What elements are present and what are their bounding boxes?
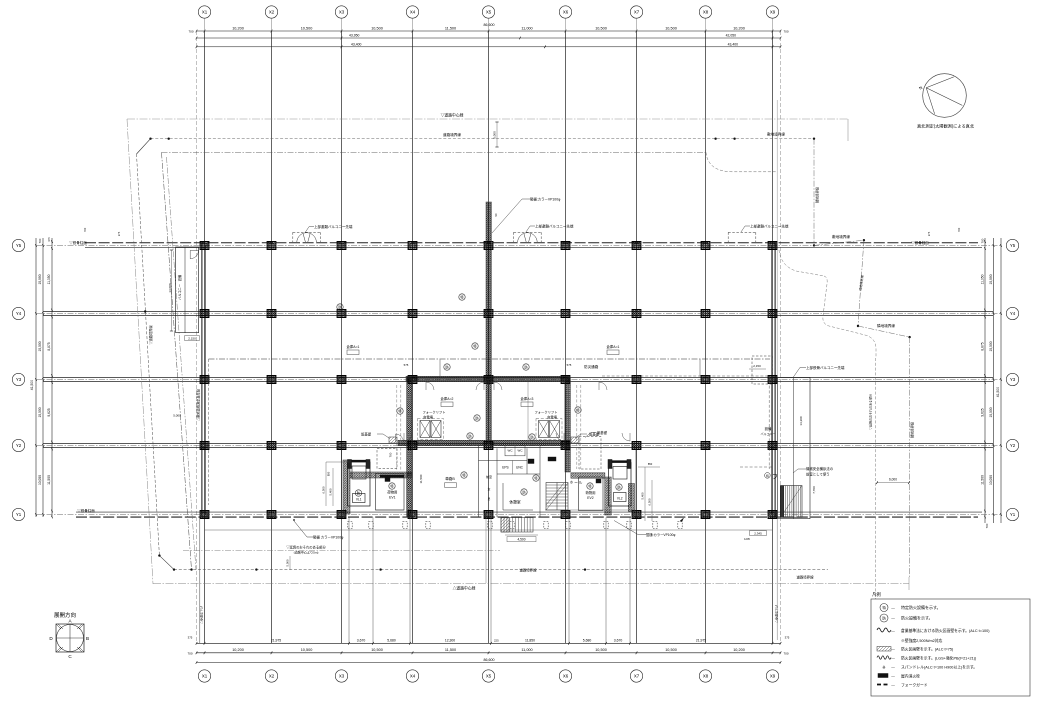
svg-text:10,500: 10,500: [371, 648, 383, 652]
svg-text:X7: X7: [634, 10, 640, 15]
svg-text:12,300: 12,300: [445, 639, 455, 643]
svg-text:隣地境界線: 隣地境界線: [910, 421, 915, 438]
svg-text:43,400: 43,400: [351, 42, 361, 46]
svg-text:▽鉄骨柱面: ▽鉄骨柱面: [77, 508, 95, 513]
svg-text:5,680: 5,680: [583, 639, 592, 643]
svg-text:21,975: 21,975: [271, 639, 281, 643]
svg-text:WC: WC: [518, 449, 524, 453]
road boundary line north: [137, 132, 816, 154]
svg-text:X3: X3: [339, 674, 345, 679]
svg-text:5,000: 5,000: [493, 131, 497, 139]
svg-text:850: 850: [327, 471, 331, 476]
svg-text:竪樋:カラーVP100φ: 竪樋:カラーVP100φ: [530, 197, 561, 202]
downspout label east: [614, 521, 675, 538]
hall room labels: [486, 449, 583, 505]
svg-text:フォークリフト: フォークリフト: [422, 410, 445, 415]
fire wall hatch X4: [407, 378, 412, 517]
svg-text:7,700: 7,700: [812, 486, 816, 494]
svg-text:道路境界線: 道路境界線: [797, 575, 815, 580]
svg-text:▽道路境界線: ▽道路境界線: [148, 325, 153, 345]
svg-text:X1: X1: [202, 10, 208, 15]
svg-text:700: 700: [389, 452, 393, 457]
svg-text:4,500: 4,500: [518, 538, 526, 542]
dashed equipment rect east: [579, 437, 601, 470]
bottom dimension lines: [187, 636, 789, 664]
equipment base west: [361, 432, 397, 444]
svg-text:▽鉄骨柱面: ▽鉄骨柱面: [911, 240, 929, 245]
road boundary south: [173, 568, 828, 580]
east EV block walls: [571, 473, 635, 515]
svg-text:前室として使う: 前室として使う: [806, 472, 830, 477]
svg-text:X9: X9: [770, 10, 776, 15]
west EV block walls: [343, 460, 412, 514]
svg-text:375: 375: [785, 636, 790, 640]
svg-text:Y5: Y5: [16, 243, 22, 248]
grid line Y4: [36, 312, 1001, 316]
svg-text:X5: X5: [486, 10, 492, 15]
svg-text:10,050: 10,050: [38, 475, 42, 485]
svg-text:575: 575: [404, 363, 409, 367]
east equipment dashed rect: [740, 356, 772, 467]
svg-text:10,050: 10,050: [989, 475, 993, 485]
svg-text:敷地境界線: 敷地境界線: [832, 234, 850, 239]
svg-text:EPS: EPS: [502, 466, 508, 470]
svg-text:EV1: EV1: [389, 496, 396, 500]
svg-text:10,500: 10,500: [665, 648, 677, 652]
svg-text:設基礎: 設基礎: [361, 432, 372, 437]
svg-text:設備: 設備: [765, 426, 772, 431]
forklift charging east: [534, 410, 562, 440]
svg-text:10,000: 10,000: [989, 407, 993, 417]
svg-text:—: —: [891, 666, 895, 670]
svg-text:防火区画壁を示す。(ALC t=75): 防火区画壁を示す。(ALC t=75): [901, 647, 954, 652]
svg-text:特: 特: [882, 605, 886, 610]
svg-text:10,200: 10,200: [733, 26, 745, 30]
svg-text:275: 275: [117, 231, 121, 236]
svg-text:▽延焼のおそれのある部分: ▽延焼のおそれのある部分: [868, 394, 873, 430]
svg-text:41,500: 41,500: [996, 387, 1000, 397]
svg-text:5,000: 5,000: [173, 414, 181, 418]
dashed opening west: [377, 449, 397, 469]
fire wall hatch X6: [565, 378, 570, 472]
exterior wall X9: [772, 243, 775, 517]
west road center diagonal D1: [127, 119, 153, 584]
svg-text:700: 700: [783, 30, 788, 34]
svg-text:11,350: 11,350: [981, 274, 985, 284]
svg-text:6,500: 6,500: [322, 486, 326, 493]
svg-text:X2: X2: [269, 10, 275, 15]
svg-text:375: 375: [188, 636, 193, 640]
svg-text:充電場: 充電場: [423, 415, 434, 420]
svg-text:10,500: 10,500: [595, 26, 607, 30]
svg-text:13,000: 13,000: [168, 283, 172, 293]
svg-text:敷地境界線: 敷地境界線: [767, 131, 785, 136]
svg-text:機械安全横臥法の: 機械安全横臥法の: [806, 466, 834, 471]
hall stairs: [546, 483, 568, 511]
east balcony stair: [780, 486, 816, 518]
svg-text:—: —: [891, 617, 895, 621]
svg-text:△歩道切下げ: △歩道切下げ: [774, 605, 779, 623]
exterior wall Y5: [36, 243, 1001, 248]
svg-text:43,950: 43,950: [349, 34, 359, 38]
svg-text:(道路中心より5m): (道路中心より5m): [294, 550, 319, 555]
svg-text:VL1: VL1: [356, 498, 362, 502]
svg-text:X6: X6: [563, 10, 569, 15]
svg-text:10,200: 10,200: [232, 26, 244, 30]
svg-text:700: 700: [957, 227, 961, 232]
svg-text:道路境界線: 道路境界線: [443, 132, 461, 137]
5000 dim north: [493, 122, 499, 147]
svg-text:△敷地面積測定基準線: △敷地面積測定基準線: [196, 388, 201, 421]
svg-text:11,500: 11,500: [445, 648, 456, 652]
svg-text:防: 防: [882, 616, 886, 621]
east fire-spread line (5m offset): [779, 250, 876, 655]
storage A2 A3 labels: [441, 396, 534, 407]
offset line right: [777, 31, 780, 643]
svg-text:13,200: 13,200: [799, 416, 803, 426]
svg-text:850: 850: [648, 462, 653, 466]
svg-text:—: —: [891, 648, 895, 652]
svg-text:荷物用: 荷物用: [585, 490, 595, 495]
steel column face labels: [69, 240, 929, 513]
svg-text:防災通路: 防災通路: [584, 364, 599, 369]
balcony tip marker east: [728, 223, 789, 242]
grid labels X1-X9 top: [198, 6, 778, 31]
svg-text:700: 700: [38, 238, 42, 243]
svg-text:—: —: [891, 684, 895, 688]
svg-text:5,400: 5,400: [329, 488, 333, 495]
svg-text:※壁強度2,500N/m2対応: ※壁強度2,500N/m2対応: [901, 638, 943, 643]
fire hose cabinets: [385, 457, 601, 483]
svg-text:—: —: [891, 629, 895, 633]
svg-text:VL2: VL2: [617, 497, 623, 501]
svg-text:△歩道切下げ: △歩道切下げ: [199, 606, 204, 624]
svg-text:竪樋:カラーVP100φ: 竪樋:カラーVP100φ: [646, 532, 675, 537]
svg-text:倉庫A=1: 倉庫A=1: [347, 344, 360, 349]
svg-text:9,625: 9,625: [981, 408, 985, 416]
svg-text:バルコニー: バルコニー: [761, 432, 776, 436]
svg-text:2,150: 2,150: [188, 337, 196, 341]
svg-text:※: ※: [882, 665, 886, 670]
svg-text:10,000: 10,000: [38, 407, 42, 417]
svg-text:9,625: 9,625: [47, 408, 51, 416]
svg-text:5,680: 5,680: [387, 639, 396, 643]
svg-text:道路境界線: 道路境界線: [520, 568, 538, 573]
svg-text:86,600: 86,600: [484, 23, 495, 27]
svg-text:11,500: 11,500: [47, 475, 51, 485]
svg-text:41,500: 41,500: [30, 380, 34, 390]
svg-text:10,500: 10,500: [301, 648, 313, 652]
east block dims: [638, 462, 684, 522]
svg-text:575: 575: [567, 363, 572, 367]
grid verticals X1-X9: [205, 31, 773, 643]
svg-text:11,500: 11,500: [981, 475, 985, 485]
svg-text:11,000: 11,000: [521, 648, 532, 652]
svg-text:ホ ー ル: ホ ー ル: [570, 480, 583, 485]
columns at grid intersections: [200, 242, 777, 519]
svg-text:11,000: 11,000: [521, 26, 532, 30]
svg-text:11,500: 11,500: [445, 26, 456, 30]
svg-text:防火設備を示す。: 防火設備を示す。: [901, 615, 933, 621]
svg-text:86,600: 86,600: [484, 658, 495, 662]
svg-text:2,345: 2,345: [754, 532, 762, 536]
svg-text:Y3: Y3: [1010, 377, 1016, 382]
svg-text:X4: X4: [410, 10, 416, 15]
svg-text:倉業基準法における防火区画壁を示す。(ALC t=100): 倉業基準法における防火区画壁を示す。(ALC t=100): [901, 628, 990, 633]
svg-text:フォークガード: フォークガード: [901, 683, 928, 688]
top dimension lines: [188, 23, 788, 48]
svg-text:凡例: 凡例: [872, 591, 881, 598]
svg-text:700: 700: [187, 651, 192, 655]
svg-text:3,670: 3,670: [357, 639, 366, 643]
svg-text:バルコニー: バルコニー: [178, 284, 182, 300]
svg-text:Y5: Y5: [1010, 243, 1016, 248]
grid line Y3: [36, 378, 1001, 382]
svg-text:5,000: 5,000: [286, 559, 290, 566]
svg-text:21,975: 21,975: [696, 639, 706, 643]
svg-text:275: 275: [927, 231, 931, 236]
grid labels Y1-Y5 right: [1006, 239, 1018, 520]
svg-text:Y1: Y1: [1010, 512, 1016, 517]
svg-text:10,500: 10,500: [595, 648, 607, 652]
svg-text:10,200: 10,200: [232, 648, 244, 652]
grid labels X1-X9 bottom: [198, 670, 778, 682]
svg-text:上部避難バルコニー先端: 上部避難バルコニー先端: [750, 223, 789, 228]
grid labels Y1-Y5 left: [12, 239, 24, 520]
rotated curb texts: [199, 605, 779, 624]
disaster corridor labels: [404, 363, 599, 469]
equipment base east: [571, 432, 600, 444]
svg-text:X9: X9: [770, 674, 776, 679]
site boundary line north: [162, 131, 786, 172]
svg-text:設基礎: 設基礎: [597, 430, 608, 435]
wall extensions below Y1: [200, 518, 777, 644]
storage partitions: [397, 360, 700, 471]
fire wall hatch Y2: [398, 440, 570, 445]
svg-text:スパンドレル(ALC t=100 H900以上)を示す。: スパンドレル(ALC t=100 H900以上)を示す。: [901, 665, 977, 670]
cargo elevator EV1: [376, 474, 405, 511]
svg-text:X4: X4: [410, 674, 416, 679]
hall block walls: [479, 446, 541, 518]
vehicle room B label: [419, 474, 457, 487]
south entrance steps: [501, 518, 538, 542]
storage A1 labels: [347, 344, 620, 355]
svg-text:荷物用: 荷物用: [387, 490, 397, 495]
svg-text:Y4: Y4: [16, 311, 22, 316]
svg-text:倉庫A=1: 倉庫A=1: [607, 344, 620, 349]
svg-text:700: 700: [188, 30, 193, 34]
svg-text:2,150: 2,150: [753, 364, 761, 368]
svg-text:B: B: [86, 636, 89, 641]
interior partitions: [342, 379, 637, 517]
svg-text:倉庫A=2: 倉庫A=2: [441, 396, 454, 401]
downspout leader south: [293, 519, 344, 539]
svg-text:前室: 前室: [486, 474, 492, 479]
road center line north: [127, 113, 848, 142]
svg-text:Y1: Y1: [16, 512, 22, 517]
svg-text:43,400: 43,400: [728, 42, 738, 46]
svg-text:竪樋 カラーVP100φ: 竪樋 カラーVP100φ: [313, 535, 344, 540]
svg-text:防火区画壁を示す。(LGS+強化PB(t=21+21)): 防火区画壁を示す。(LGS+強化PB(t=21+21)): [901, 656, 977, 661]
svg-text:5,400: 5,400: [641, 492, 645, 499]
svg-text:700: 700: [981, 238, 985, 243]
fo mark: [765, 473, 778, 481]
corner offset labels: [83, 227, 961, 236]
svg-text:車路B: 車路B: [445, 476, 455, 481]
svg-text:展開方向: 展開方向: [54, 611, 76, 619]
svg-text:倉庫A=3: 倉庫A=3: [521, 396, 534, 401]
road center south: [153, 577, 909, 591]
svg-text:X2: X2: [269, 674, 275, 679]
svg-text:11,500: 11,500: [419, 474, 423, 483]
svg-text:6,000: 6,000: [889, 478, 897, 482]
svg-text:700: 700: [985, 523, 989, 528]
west site boundary diagonal D3 D4: [148, 152, 201, 570]
svg-text:8,875: 8,875: [47, 342, 51, 350]
door arcs: [396, 382, 631, 442]
fire spread label south: [183, 545, 500, 555]
svg-text:10,990: 10,990: [989, 274, 993, 284]
svg-text:1205: 1205: [744, 537, 750, 541]
svg-text:—: —: [891, 657, 895, 661]
svg-text:10,500: 10,500: [665, 26, 677, 30]
svg-text:6,500: 6,500: [648, 498, 652, 505]
svg-text:屋内消火栓: 屋内消火栓: [901, 674, 920, 679]
svg-text:△道路中心線: △道路中心線: [453, 586, 476, 591]
svg-text:フォークリフト: フォークリフト: [534, 410, 557, 415]
svg-text:隣地境界線: 隣地境界線: [877, 323, 895, 328]
svg-text:X1: X1: [202, 674, 208, 679]
svg-text:3,670: 3,670: [614, 639, 623, 643]
svg-text:特定防火設備を示す。: 特定防火設備を示す。: [901, 604, 941, 610]
svg-text:Y2: Y2: [16, 443, 22, 448]
svg-text:X3: X3: [339, 10, 345, 15]
svg-text:225: 225: [494, 639, 499, 643]
balcony tip marker center: [514, 223, 574, 242]
6000 dim east: [876, 478, 910, 485]
development direction symbol: [49, 611, 89, 659]
svg-text:—: —: [891, 675, 895, 679]
east site boundary segments: [814, 234, 915, 577]
svg-text:11,350: 11,350: [47, 274, 51, 284]
svg-text:8,875: 8,875: [981, 342, 985, 350]
svg-text:Y3: Y3: [16, 377, 22, 382]
svg-text:10,500: 10,500: [301, 26, 313, 30]
svg-text:EV2: EV2: [587, 496, 594, 500]
balcony tip marker west: [293, 224, 353, 242]
lift VL2: [608, 460, 631, 507]
svg-text:Y2: Y2: [1010, 443, 1016, 448]
svg-text:UNC: UNC: [516, 466, 524, 470]
fire wall hatch X5 vertical: [486, 197, 561, 444]
exterior wall X1: [202, 243, 205, 517]
stub lines below building: [349, 518, 630, 644]
svg-text:10,000: 10,000: [989, 341, 993, 351]
svg-text:上部鉄骨バルコニー先端: 上部鉄骨バルコニー先端: [806, 365, 845, 370]
cargo elevator EV2: [579, 477, 604, 511]
north arrow: [917, 74, 975, 130]
offset line left: [196, 31, 198, 643]
svg-text:女: 女: [488, 487, 491, 491]
forklift charging west: [418, 410, 446, 440]
west block dims: [322, 462, 351, 506]
svg-text:X5: X5: [486, 674, 492, 679]
east service balcony: [749, 364, 845, 519]
svg-text:フ: フ: [772, 474, 778, 481]
fire wall hatch Y3: [406, 376, 570, 381]
east 2345 dim: [744, 531, 766, 541]
svg-text:700: 700: [783, 651, 788, 655]
foundation marks below Y1: [348, 522, 682, 529]
svg-text:—: —: [891, 606, 895, 610]
svg-text:10,200: 10,200: [733, 648, 745, 652]
fire equipment markers: [337, 294, 622, 496]
svg-text:男: 男: [488, 497, 491, 501]
svg-text:▽道路中心線: ▽道路中心線: [441, 113, 464, 118]
east site boundary vertical x=814: [813, 139, 820, 247]
lift VL1: [348, 460, 371, 507]
svg-text:特: 特: [766, 474, 769, 478]
svg-text:WC: WC: [508, 449, 514, 453]
svg-text:10,000: 10,000: [38, 341, 42, 351]
grid line Y2: [36, 444, 1001, 448]
5000 dim south: [286, 556, 291, 570]
svg-text:休憩室: 休憩室: [509, 500, 521, 505]
exterior wall Y1: [36, 512, 1001, 517]
west road boundary diagonal D2: [137, 154, 175, 570]
svg-text:設備: 設備: [177, 275, 182, 281]
svg-text:上部避難バルコニー先端: 上部避難バルコニー先端: [314, 224, 353, 229]
svg-text:X8: X8: [703, 674, 709, 679]
svg-text:▽鉄骨柱面: ▽鉄骨柱面: [69, 240, 87, 245]
right dimension lines: [981, 238, 1002, 528]
svg-text:真北測定(太陽観測)による真北: 真北測定(太陽観測)による真北: [917, 123, 975, 130]
svg-text:隣地境界線: 隣地境界線: [815, 186, 820, 203]
svg-text:X7: X7: [634, 674, 640, 679]
legend box: [871, 591, 1030, 696]
eave line south: [205, 529, 773, 531]
fork guard dashed rect: [209, 359, 771, 505]
equipment base label EV2: [585, 430, 608, 438]
svg-text:375: 375: [47, 237, 51, 242]
svg-text:700: 700: [83, 227, 87, 232]
svg-text:上部避難バルコニー先端: 上部避難バルコニー先端: [535, 223, 574, 228]
svg-text:X6: X6: [563, 674, 569, 679]
svg-text:42,050: 42,050: [726, 34, 736, 38]
svg-text:▽延焼のおそれのある部分: ▽延焼のおそれのある部分: [286, 545, 326, 550]
svg-text:11,850: 11,850: [525, 639, 535, 643]
svg-text:10,500: 10,500: [371, 26, 383, 30]
svg-text:10,990: 10,990: [38, 274, 42, 284]
svg-text:充電場: 充電場: [547, 415, 558, 420]
west service balcony: [168, 247, 200, 341]
svg-text:X8: X8: [703, 10, 709, 15]
left dimension lines: [30, 237, 53, 519]
svg-text:Y4: Y4: [1010, 311, 1016, 316]
